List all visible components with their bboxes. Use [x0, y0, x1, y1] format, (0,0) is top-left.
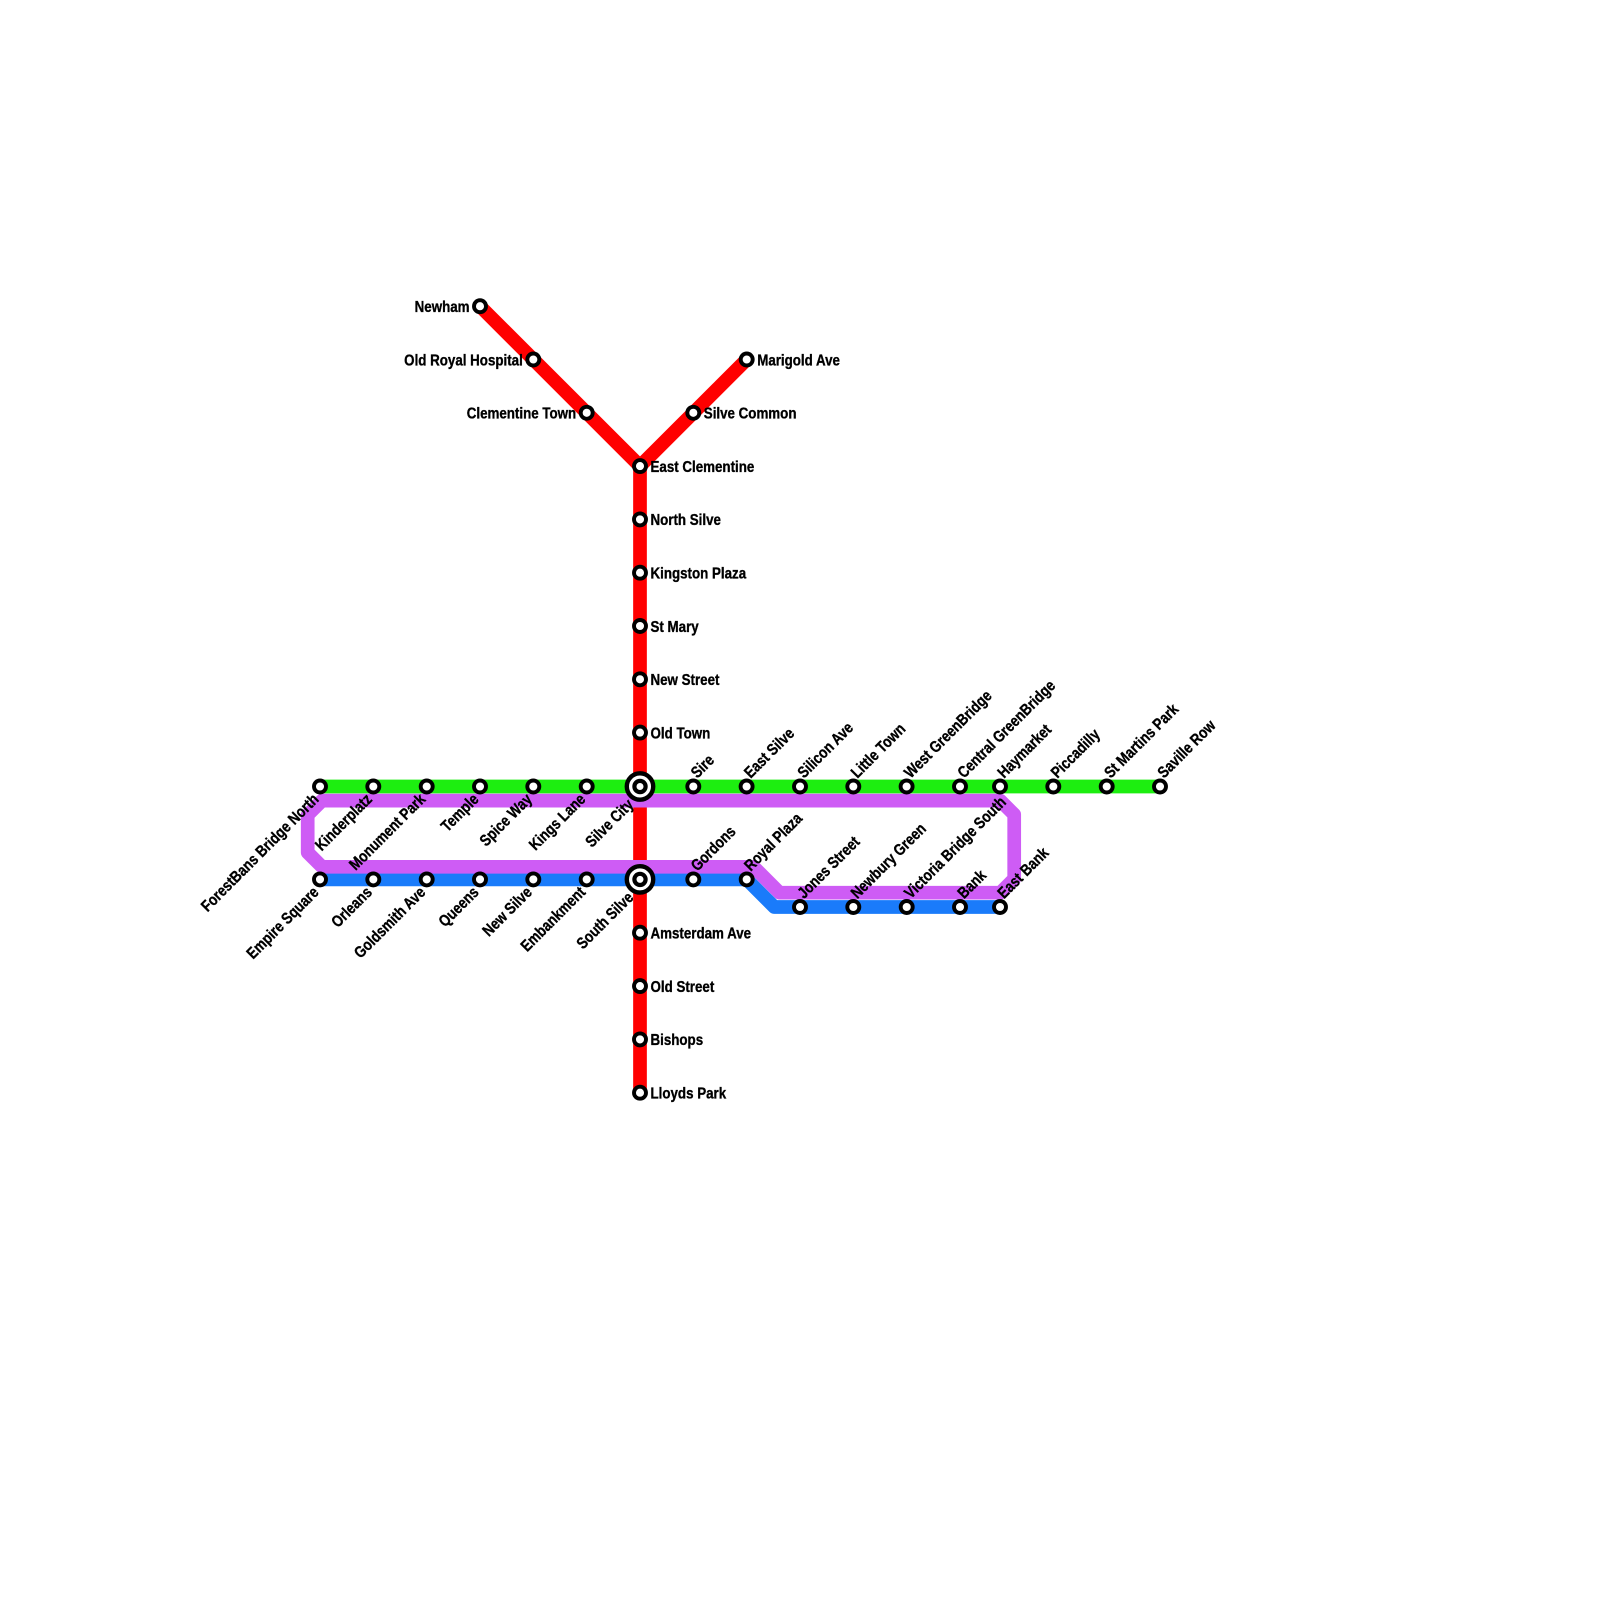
svg-text:Lloyds Park: Lloyds Park [651, 1085, 727, 1102]
svg-text:Clementine Town: Clementine Town [467, 406, 576, 423]
svg-text:North Silve: North Silve [651, 512, 721, 529]
svg-text:Old Street: Old Street [651, 979, 715, 996]
svg-text:East Clementine: East Clementine [651, 459, 755, 476]
svg-text:Old Royal Hospital: Old Royal Hospital [404, 352, 523, 369]
svg-text:Kingston Plaza: Kingston Plaza [651, 565, 747, 582]
svg-text:Newham: Newham [415, 299, 470, 316]
svg-text:Marigold Ave: Marigold Ave [757, 352, 840, 369]
svg-text:St Mary: St Mary [651, 619, 700, 636]
svg-text:Silve Common: Silve Common [704, 406, 797, 423]
svg-text:Old Town: Old Town [651, 725, 711, 742]
svg-text:Bishops: Bishops [651, 1032, 704, 1049]
svg-text:Amsterdam Ave: Amsterdam Ave [651, 925, 752, 942]
svg-text:New Street: New Street [651, 672, 720, 689]
